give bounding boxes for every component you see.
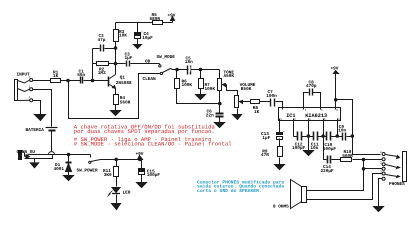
input jack tip contact	[18, 79, 33, 84]
svg-text:+9V: +9V	[331, 67, 339, 72]
LED D2	[108, 188, 121, 204]
svg-text:2: 2	[29, 86, 31, 89]
svg-text:+9V: +9V	[168, 14, 176, 19]
svg-text:corta o GND do SPEAKER.: corta o GND do SPEAKER.	[197, 188, 262, 194]
row6 to ground	[374, 179, 384, 212]
capacitor C14 (electrolytic)	[328, 156, 341, 164]
input jack sleeve contact	[18, 99, 33, 102]
battery BATERIA	[31, 128, 58, 159]
capacitor C13 (electrolytic)	[277, 133, 283, 147]
svg-text:560R: 560R	[120, 101, 131, 106]
svg-text:# SW_MODE - seleciona CLEAN/OD: # SW_MODE - seleciona CLEAN/OD - Painel …	[74, 141, 232, 148]
svg-text:100µF: 100µF	[323, 147, 337, 152]
resistor R3	[114, 23, 119, 42]
svg-text:100K: 100K	[205, 87, 216, 92]
svg-text:3: 3	[380, 171, 382, 174]
capacitor C8	[310, 89, 313, 96]
transistor Q1	[109, 75, 116, 89]
ground input jack	[35, 115, 46, 121]
capacitor C11	[314, 132, 318, 141]
svg-text:OD: OD	[145, 59, 151, 64]
capacitor C6	[216, 113, 224, 123]
potentiometer TONE	[218, 70, 238, 113]
resistor R4	[114, 95, 119, 111]
ground C15	[137, 183, 147, 188]
resistor R8	[251, 100, 271, 104]
svg-text:PHONES: PHONES	[389, 182, 405, 187]
ground C4	[134, 45, 142, 49]
switch SW_MODE lever	[163, 69, 171, 73]
svg-text:3: 3	[29, 76, 31, 79]
capacitor C9	[343, 133, 346, 141]
svg-text:1M2: 1M2	[98, 71, 106, 76]
svg-text:3K9: 3K9	[104, 173, 112, 178]
output drop to C14	[324, 137, 327, 160]
svg-text:8: 8	[338, 118, 340, 121]
ground bus	[304, 137, 314, 156]
capacitor C2	[93, 45, 116, 52]
branch to phones row1	[336, 100, 381, 155]
svg-text:10K: 10K	[119, 34, 127, 39]
IC1 KIA6213 box	[279, 108, 341, 121]
phones jack contacts	[382, 153, 385, 181]
IC pin drops to bus	[294, 121, 338, 137]
svg-text:3: 3	[280, 118, 282, 121]
svg-text:8 OHMS: 8 OHMS	[273, 205, 289, 210]
resistor R11	[114, 160, 119, 187]
svg-text:100µF: 100µF	[147, 173, 161, 178]
power connector CONN_SU	[19, 151, 31, 160]
svg-text:680R: 680R	[150, 17, 161, 22]
svg-text:por duas chaves SPDT separadas: por duas chaves SPDT separadas por funca…	[74, 128, 215, 135]
resistor R9	[278, 147, 283, 165]
+9V above IC	[334, 71, 339, 108]
svg-text:+9V: +9V	[136, 152, 144, 157]
capacitor C10 (electrolytic)	[327, 132, 331, 141]
capacitor C12 (electrolytic)	[298, 132, 302, 141]
capacitor C5	[188, 66, 191, 75]
+9V top left	[171, 17, 175, 23]
node B junction (feedback tap)	[91, 79, 94, 82]
ground R7	[196, 95, 206, 100]
phones jack frame	[403, 152, 407, 182]
svg-text:SW_POWER: SW_POWER	[77, 169, 98, 174]
input jack J1 body	[15, 80, 18, 101]
svg-text:2N5088: 2N5088	[116, 81, 132, 86]
wire to row4	[364, 168, 383, 170]
svg-text:47R: 47R	[261, 153, 269, 158]
svg-text:10n: 10n	[310, 146, 318, 151]
svg-text:1K: 1K	[254, 110, 260, 115]
svg-text:5: 5	[336, 109, 338, 112]
svg-text:7: 7	[305, 109, 307, 112]
wire R1 to C1	[61, 80, 81, 82]
bus wire	[294, 136, 353, 138]
emitter wire	[115, 89, 117, 95]
svg-text:1: 1	[380, 151, 382, 154]
ground R9	[275, 165, 285, 170]
svg-text:470p: 470p	[306, 84, 317, 89]
wire conn to switch	[29, 154, 91, 156]
svg-text:4: 4	[321, 109, 323, 112]
capacitor C15 (electrolytic)	[139, 160, 145, 183]
svg-text:4001: 4001	[54, 167, 65, 172]
svg-text:1µF: 1µF	[262, 136, 270, 141]
top supply rail	[116, 22, 173, 24]
node A junction	[67, 79, 70, 82]
svg-text:2: 2	[380, 161, 382, 164]
IC top pin to C8 left	[304, 93, 309, 108]
svg-text:SW_MODE: SW_MODE	[157, 55, 176, 60]
IC top pin to C8 right	[313, 93, 321, 108]
capacitor C7	[271, 99, 283, 108]
switched rail	[101, 159, 142, 161]
svg-text:BATERIA: BATERIA	[26, 128, 45, 133]
diode D1	[66, 155, 72, 176]
svg-text:Q1: Q1	[120, 75, 126, 80]
wire sleeve to ground	[33, 101, 41, 115]
ground VOLUME	[233, 115, 242, 120]
svg-text:18n: 18n	[185, 60, 193, 65]
resistor R7	[199, 70, 204, 95]
ground C6	[215, 123, 225, 128]
svg-text:CLEAN: CLEAN	[143, 77, 157, 82]
capacitor C4 (electrolytic)	[135, 23, 141, 45]
feedback branch vertical	[92, 49, 94, 81]
IC pin stubs	[280, 108, 338, 121]
ground R4	[111, 111, 121, 116]
svg-text:6: 6	[324, 118, 326, 121]
svg-text:LED: LED	[123, 191, 131, 196]
svg-text:2: 2	[294, 118, 296, 121]
wire tip to R1	[33, 80, 51, 82]
collector vertical wire	[115, 42, 117, 75]
ground D1	[64, 176, 74, 181]
svg-text:560R: 560R	[342, 154, 353, 159]
wire C1 to Q1 base	[84, 80, 109, 82]
svg-text:1: 1	[309, 118, 311, 121]
wire rows 2-4 tie and speaker plus	[307, 160, 364, 191]
speaker minus wire to row5	[307, 174, 383, 200]
resistor R5	[153, 21, 163, 25]
svg-text:100K: 100K	[182, 83, 193, 88]
svg-text:1µF: 1µF	[125, 56, 133, 61]
resistor R6	[175, 70, 220, 104]
ground LED	[112, 204, 121, 210]
svg-text:47p: 47p	[98, 38, 106, 43]
potentiometer VOLUME	[235, 96, 251, 115]
svg-text:10µF: 10µF	[142, 36, 153, 41]
svg-text:+: +	[283, 131, 285, 134]
svg-text:22n: 22n	[206, 113, 214, 118]
capacitor C1	[81, 77, 83, 84]
svg-text:1K: 1K	[53, 74, 59, 79]
switch SW_MODE OD contact	[159, 64, 161, 68]
svg-text:CONN_SU: CONN_SU	[17, 150, 36, 155]
resistor R10	[341, 158, 383, 162]
input jack ring contact	[18, 88, 33, 92]
switch SW_MODE clean contact	[160, 72, 162, 74]
ground CONN_SU	[30, 159, 38, 168]
svg-text:10n: 10n	[338, 128, 346, 133]
wire ring to battery	[33, 90, 52, 127]
svg-text:A50K: A50K	[224, 74, 235, 79]
svg-text:100µF: 100µF	[292, 146, 306, 151]
IC pin to C13	[279, 121, 281, 133]
capacitor C3	[116, 61, 160, 67]
wire common to tone network	[171, 69, 220, 70]
wire clean bypass	[69, 74, 161, 119]
svg-text:56n: 56n	[77, 73, 85, 78]
svg-text:B50K: B50K	[241, 87, 252, 92]
svg-text:220µF: 220µF	[321, 169, 335, 174]
resistor R2	[93, 62, 116, 66]
+9V bottom	[138, 156, 143, 160]
switch SW_POWER	[89, 155, 101, 164]
svg-text:100n: 100n	[266, 94, 277, 99]
phones jack switch arms	[386, 155, 400, 159]
svg-text:1: 1	[29, 96, 31, 99]
resistor R1	[51, 79, 61, 83]
speaker LS1	[291, 180, 307, 209]
